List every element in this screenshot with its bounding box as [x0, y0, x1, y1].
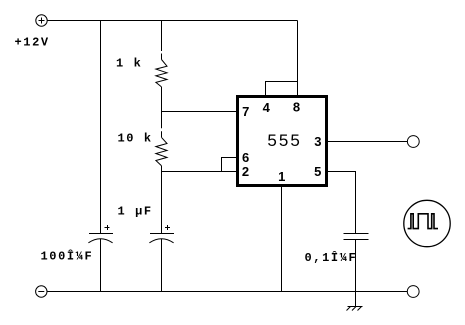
ground — [347, 307, 363, 311]
scope icon — [404, 200, 450, 246]
capacitor C1 plate — [89, 233, 113, 235]
svg-text:6: 6 — [242, 150, 249, 165]
svg-text:0,1Î¼F: 0,1Î¼F — [305, 250, 358, 265]
node pin7 junction wire — [162, 111, 237, 113]
svg-text:555: 555 — [267, 131, 301, 150]
wire bottom rail — [47, 291, 407, 293]
terminal minus — [36, 286, 47, 297]
op-amp U1 555 box — [238, 97, 327, 186]
svg-text:3: 3 — [314, 134, 321, 149]
capacitor C2 plate — [150, 233, 174, 235]
wire pin1 — [281, 187, 283, 292]
svg-text:7: 7 — [242, 104, 249, 119]
wire pin3 output — [328, 141, 407, 143]
wire R1-R2 — [161, 87, 163, 137]
wire top rail — [47, 20, 297, 22]
wire R2 bottom to C2 — [161, 166, 163, 234]
svg-text:100Î¼F: 100Î¼F — [41, 249, 94, 264]
svg-text:4: 4 — [263, 100, 271, 115]
capacitor C1 arc — [88, 239, 112, 243]
wire pin5 — [328, 172, 356, 234]
terminal +12V — [36, 15, 47, 26]
wire C1 drop — [100, 21, 102, 234]
svg-text:+12V: +12V — [15, 36, 50, 50]
capacitor C1 plus — [105, 225, 110, 230]
wire bracket pins 4-8 — [266, 82, 298, 96]
svg-text:1 k: 1 k — [116, 56, 142, 70]
wire pin2 — [162, 171, 237, 173]
capacitor C2 plus — [165, 225, 170, 230]
wire C1 bottom — [100, 239, 102, 292]
svg-text:10 k: 10 k — [118, 131, 153, 145]
wire pin6 jog — [222, 158, 237, 172]
wire Vcc feed pins 4-8 — [297, 21, 299, 96]
wire R1 top lead — [161, 21, 163, 60]
capacitor C2 arc — [149, 239, 173, 243]
svg-text:8: 8 — [293, 100, 300, 115]
resistor R2 — [156, 137, 167, 165]
svg-text:1: 1 — [278, 169, 285, 184]
wire C3 bottom — [355, 240, 357, 307]
svg-text:2: 2 — [242, 164, 249, 179]
capacitor C3 plates — [344, 234, 369, 240]
wire C2 bottom — [161, 239, 163, 292]
resistor R1 — [156, 60, 167, 87]
svg-text:1 µF: 1 µF — [118, 204, 153, 218]
svg-text:5: 5 — [314, 164, 321, 179]
terminal ground output — [407, 286, 419, 298]
terminal output — [407, 136, 419, 148]
